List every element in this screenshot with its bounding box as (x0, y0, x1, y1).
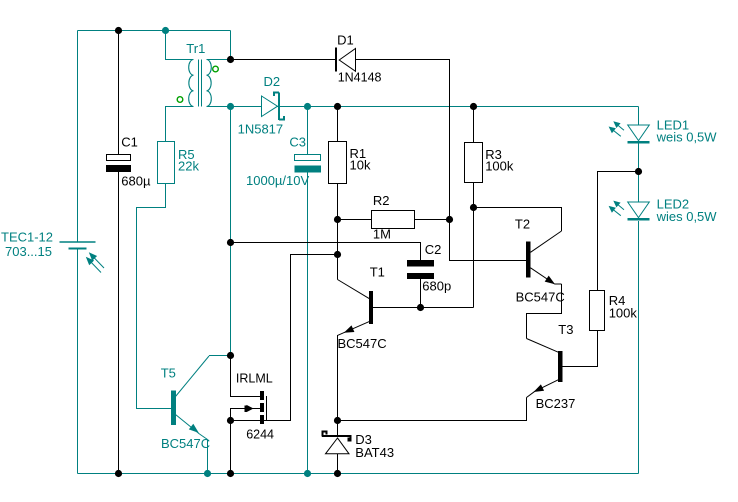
label 100k (R4) (609, 305, 638, 320)
label R1 (350, 146, 367, 161)
label 680µ (121, 173, 151, 188)
svg-text:BC547C: BC547C (338, 336, 387, 351)
label 1M (373, 227, 391, 242)
wire T2 emitter to T3 collector (527, 284, 562, 339)
label T2 (515, 217, 530, 232)
label C3 (289, 134, 306, 149)
label C1 (121, 135, 138, 150)
TEC energy-input arrow 1 (89, 252, 104, 268)
svg-text:1M: 1M (373, 227, 391, 242)
label R3 (485, 147, 502, 162)
wire T1 collector node left and down to MOSFET source (267, 255, 338, 421)
wire T3 base to R4 bottom (563, 331, 598, 367)
svg-text:6244: 6244 (246, 428, 274, 442)
node R1/supply rail junction (334, 103, 341, 110)
wire D3 bottom lead to ground rail (337, 454, 339, 474)
node MOSFET gate-source junction (227, 417, 234, 424)
wire secondary-bottom node to C2 top (231, 243, 421, 261)
label D2 (264, 74, 281, 89)
label D3 (355, 432, 372, 447)
battery symbol TEC1-12 long plate (positive) (60, 241, 96, 243)
label wies 0,5W (656, 209, 718, 224)
transformer Tr1 (189, 60, 212, 107)
node LED mid/R4 junction (635, 168, 642, 175)
label C2 (425, 242, 442, 257)
svg-text:wies 0,5W: wies 0,5W (656, 209, 718, 224)
capacitor C2 bottom plate (407, 273, 434, 279)
wire C1 bottom lead to ground rail (118, 171, 120, 474)
label T5 (161, 366, 176, 381)
capacitor C2 top plate (407, 260, 434, 267)
transistor T1 (BC547C npn) (338, 255, 374, 336)
svg-text:BAT43: BAT43 (355, 445, 394, 460)
wire R2 right lead (415, 219, 450, 221)
svg-text:C1: C1 (121, 135, 138, 150)
label IRLML (236, 372, 273, 386)
wire R3 node to T2 collector (474, 208, 562, 232)
LED2 emission arrows (609, 201, 624, 216)
wire transformer primary bottom pin to R5 (166, 107, 194, 142)
wire MOSFET gate branch (231, 409, 261, 421)
svg-text:100k: 100k (609, 305, 638, 320)
svg-text:10k: 10k (350, 157, 371, 172)
node secondary-top/D1 junction (227, 56, 234, 63)
capacitor C3 top plate (295, 155, 321, 161)
wire mid node to LED2 anode (638, 172, 640, 203)
svg-text:C2: C2 (425, 242, 442, 257)
wire left rail upper segment (TEC positive lead) (77, 31, 79, 242)
transistor T5 (BC547C npn) (171, 356, 231, 474)
LED1 symbol (628, 125, 650, 144)
wire top supply rail (78, 30, 231, 32)
node C1/ground rail junction (115, 470, 122, 477)
wire R2-right node down to T2 base (450, 220, 527, 261)
wire MOSFET source node to ground rail (230, 421, 232, 474)
wire T1 emitter down to D3 cathode node (337, 335, 339, 421)
label D1 (337, 32, 354, 47)
wire transformer secondary top pin (207, 59, 231, 61)
wire top rail to transformer secondary top (230, 31, 232, 60)
wire left rail lower segment (TEC negative lead) (77, 250, 79, 474)
svg-text:weis 0,5W: weis 0,5W (656, 130, 718, 145)
svg-text:1N4148: 1N4148 (338, 71, 382, 85)
node C2 bottom/T1 base junction (417, 304, 424, 311)
label BAT43 (355, 445, 394, 460)
wire C2 bottom lead (420, 279, 422, 308)
wire MOSFET drain branch (231, 356, 261, 397)
node C1/top rail junction (115, 27, 122, 34)
label 22k (178, 158, 199, 173)
svg-text:BC547C: BC547C (161, 436, 210, 451)
svg-text:IRLML: IRLML (236, 372, 273, 386)
wire D3 top lead (337, 421, 339, 436)
label TEC1-12 (1, 229, 53, 244)
wire LED1 cathode to mid node (638, 144, 640, 172)
wire R2 left lead (338, 219, 372, 221)
node MOSFET/ground rail junction (227, 470, 234, 477)
transistor T2 (BC547C npn) (526, 231, 562, 284)
label weis 0,5W (656, 130, 718, 145)
wire transformer primary top pin (166, 31, 194, 60)
node secondary-bottom/D2 junction (227, 103, 234, 110)
svg-text:T3: T3 (558, 322, 573, 337)
svg-text:680µ: 680µ (121, 173, 151, 188)
wire T3 emitter to D3 node (338, 398, 527, 421)
Tr1 primary phase dot (177, 97, 183, 103)
wire C1 top lead from top rail (118, 31, 120, 155)
label BC547C (T2) (516, 290, 565, 305)
wire R1 top lead (337, 107, 339, 142)
label BC547C (T5) (161, 436, 210, 451)
svg-text:22k: 22k (178, 158, 199, 173)
svg-text:T2: T2 (515, 217, 530, 232)
wire R3 node down to T1 base row (473, 208, 475, 308)
wire R5 bottom to T5 base (137, 184, 172, 409)
wire R3 bottom lead (473, 183, 475, 208)
label LED1 (657, 117, 690, 132)
label T1 (370, 264, 385, 279)
resistor R1 (329, 142, 347, 184)
svg-text:T5: T5 (161, 366, 176, 381)
svg-text:R2: R2 (373, 193, 390, 208)
wire T1 base to R3/T2 node (373, 307, 474, 309)
svg-text:TEC1-12: TEC1-12 (1, 229, 53, 244)
label 1N5817 (238, 121, 284, 136)
node T1-emitter/T3-emitter/D3 junction (334, 417, 341, 424)
node T5-collector/MOSFET-drain junction (227, 352, 234, 359)
wire R1 bottom lead to R2-left node (337, 184, 339, 220)
label 1000µ/10V (246, 173, 309, 188)
label 1N4148 (338, 71, 382, 85)
svg-text:1N5817: 1N5817 (238, 121, 284, 136)
svg-text:BC547C: BC547C (516, 290, 565, 305)
label BC547C (T1) (338, 336, 387, 351)
wire C3 bottom lead to ground rail (307, 172, 309, 474)
label 703...15 (5, 244, 52, 259)
TEC energy-input arrow 2 (86, 257, 101, 273)
svg-text:D2: D2 (264, 74, 281, 89)
label 100k (485, 159, 514, 174)
wire R4 top to LED mid node (598, 172, 639, 291)
node R3/T2-collector/T1-base junction (470, 204, 477, 211)
svg-text:Tr1: Tr1 (186, 41, 205, 56)
wire bottom ground rail (78, 473, 639, 475)
node R2/D1/T2-base junction (446, 216, 453, 223)
node C3/ground rail junction (304, 470, 311, 477)
svg-text:703...15: 703...15 (5, 244, 52, 259)
wire transformer secondary bottom pin (207, 106, 231, 108)
svg-text:T1: T1 (370, 264, 385, 279)
wire supply rail down to LED1 anode (638, 107, 640, 126)
label 680p (422, 279, 451, 294)
diode D3 (BAT43 schottky) (322, 431, 351, 454)
Tr1 secondary phase dot (213, 66, 219, 72)
label 6244 (246, 428, 274, 442)
capacitor C1 top plate (107, 155, 131, 161)
wire R3 top lead (473, 107, 475, 143)
LED2 symbol (628, 202, 650, 221)
node R1/R2 junction (334, 216, 341, 223)
LED1 emission arrows (609, 121, 624, 136)
wire C3 top lead (307, 107, 309, 155)
transistor T3 (BC237 npn) (527, 339, 563, 398)
capacitor C3 bottom plate (295, 166, 322, 173)
resistor R5 (158, 142, 175, 184)
diode D1 (1N4148) (336, 48, 356, 72)
capacitor C1 bottom plate (106, 165, 131, 172)
mosfet IRLML6244 (245, 391, 267, 424)
label BC237 (536, 396, 576, 411)
node primary-top/top rail junction (162, 27, 169, 34)
label R5 (178, 147, 195, 162)
diode D2 (1N5817 schottky) (262, 93, 285, 121)
wire LED2 cathode to ground rail (638, 221, 640, 474)
svg-text:1000µ/10V: 1000µ/10V (246, 173, 309, 188)
node R3/supply rail junction (470, 103, 477, 110)
svg-text:BC237: BC237 (536, 396, 576, 411)
node C2 feed junction on secondary-bottom line (227, 239, 234, 246)
label LED2 (657, 197, 690, 212)
label 10k (350, 157, 371, 172)
svg-text:680p: 680p (422, 279, 451, 294)
svg-text:100k: 100k (485, 159, 514, 174)
battery symbol TEC1-12 short plate (negative) (69, 248, 87, 250)
label T3 (558, 322, 573, 337)
resistor R4 (590, 291, 605, 331)
wire D1 anode to R2-right node (356, 60, 450, 220)
svg-text:D1: D1 (337, 32, 354, 47)
label Tr1 (186, 41, 205, 56)
wire secondary top to D1 cathode (231, 59, 336, 61)
node T1 collector junction (334, 251, 341, 258)
node T5-emitter/ground rail junction (204, 470, 211, 477)
node D3/ground rail junction (334, 470, 341, 477)
svg-text:C3: C3 (289, 134, 306, 149)
node C3/supply rail junction (304, 103, 311, 110)
wire MOSFET source branch (231, 420, 291, 422)
label R2 (373, 193, 390, 208)
resistor R2 (372, 211, 415, 229)
label R4 (609, 293, 626, 308)
resistor R3 (465, 143, 483, 183)
wire main rectified supply rail (D2 node to LEDs) (231, 106, 639, 108)
wire secondary-bottom node vertical down to T5/MOSFET node (230, 107, 232, 356)
wire R2-left node down to T1 collector node (337, 220, 339, 255)
